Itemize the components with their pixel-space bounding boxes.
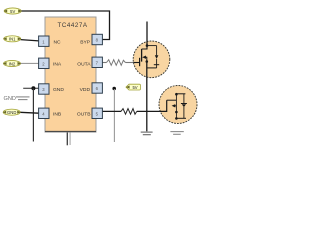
resistor R2 (zigzag) <box>121 109 137 115</box>
wire from label IN1 to pin 1 <box>21 40 39 41</box>
gate lead Q1 <box>134 62 140 64</box>
wire GND to pin 3 <box>23 87 39 89</box>
svg-text:IN1: IN1 <box>9 37 16 42</box>
pin 6 square <box>92 83 102 93</box>
pin 4 square <box>39 108 49 118</box>
svg-text:BYP: BYP <box>80 39 90 45</box>
svg-text:NC: NC <box>54 39 62 45</box>
wire OUTA to gate of Q1 (grey) <box>102 62 107 64</box>
drain-source line Q2 <box>175 94 177 118</box>
pin 7 square <box>92 57 102 67</box>
svg-text:TC4427A: TC4427A <box>58 22 88 29</box>
channel bar Q1 <box>141 49 143 62</box>
svg-text:5V: 5V <box>10 9 15 14</box>
ground symbol under Q1 <box>141 132 153 135</box>
svg-text:VDD: VDD <box>80 87 91 93</box>
gate entry and channel bar Q2 <box>160 100 167 111</box>
net label IN1 <box>3 36 21 42</box>
node VDD stub dot <box>112 87 116 91</box>
ground symbol under Q2 <box>170 132 183 135</box>
body diode branch Q2 <box>183 94 185 103</box>
wire R2 to Q2 gate <box>137 110 160 112</box>
svg-text:GND: GND <box>4 96 16 102</box>
net label GND (to pin 4 row) <box>3 109 21 115</box>
source arrow Q1 <box>142 56 146 59</box>
source bend dot Q1 <box>146 60 149 63</box>
net flag 5V (middle right) <box>126 84 140 90</box>
drain jog Q1 <box>142 44 147 50</box>
net label 5V (top left) <box>4 8 22 14</box>
IC U1 body <box>45 17 96 132</box>
pin 1 square <box>39 36 49 46</box>
wire from label GND2 to pin 4 <box>20 111 39 114</box>
gate bar Q1 <box>139 58 141 66</box>
wire dangling from VDD stub (grey) <box>113 89 115 142</box>
svg-text:IN2: IN2 <box>9 61 16 66</box>
ground symbol GND (left) <box>16 97 30 100</box>
wire dangling below IC light <box>69 132 71 145</box>
wire from label IN2 to pin 2 (grey) <box>20 62 39 64</box>
svg-text:GND: GND <box>7 110 16 115</box>
svg-text:5V: 5V <box>132 85 137 90</box>
svg-text:OUTB: OUTB <box>77 111 91 117</box>
net label IN2 <box>3 60 21 66</box>
top stub Q2 <box>176 93 185 95</box>
wire W1 net 5V from label to pin 8 <box>21 11 110 40</box>
pin 2 square <box>39 58 49 68</box>
junction node dot <box>31 86 35 90</box>
pin 3 square <box>39 84 49 94</box>
svg-text:OUTA: OUTA <box>77 61 91 67</box>
transistor Q2 (N-MOSFET in circle) <box>159 86 197 124</box>
transistor Q1 (N-MOSFET in circle) <box>133 41 170 78</box>
wire dangling below IC dark <box>66 132 68 145</box>
pin 5 square <box>92 108 102 118</box>
wire OUTB to R2 <box>102 110 121 112</box>
bottom stub Q2 <box>176 117 186 119</box>
svg-text:GND: GND <box>53 87 64 93</box>
wire drain Q1 (up) <box>146 22 148 46</box>
pin 8 square <box>92 34 102 44</box>
svg-text:INA: INA <box>53 61 62 67</box>
drain jog Q2 <box>167 99 177 101</box>
wire dangling vertical from GND junction <box>32 88 34 141</box>
svg-text:INB: INB <box>53 111 61 117</box>
bend dots Q2 <box>175 93 178 96</box>
body diode branch Q1 <box>147 45 157 47</box>
wire R1 to Q1 gate <box>125 62 133 64</box>
source arrow Q2 <box>172 104 176 107</box>
drain bend dot Q1 <box>146 44 149 47</box>
resistor R1 (grey zigzag) <box>107 60 126 66</box>
wire source Q1 to ground <box>146 62 148 132</box>
